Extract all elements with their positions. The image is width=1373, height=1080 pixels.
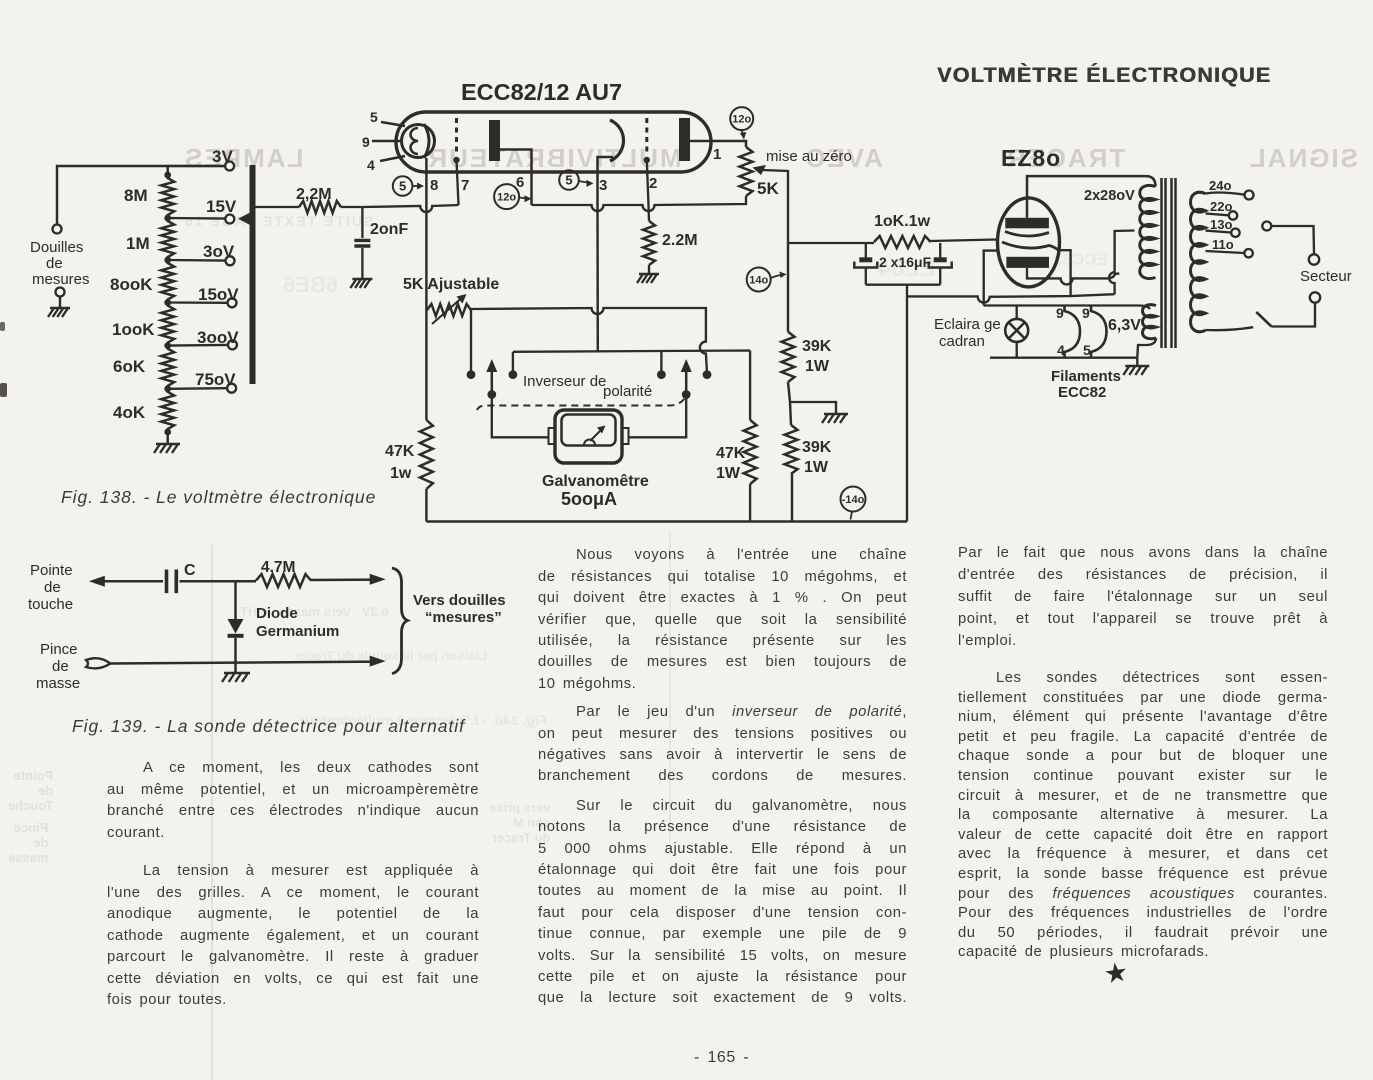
label 2x16uF [879, 254, 932, 270]
wire tap 30V [168, 259, 225, 262]
arrow 5K ajustable [432, 294, 467, 324]
svg-text:Vers douilles: Vers douilles [413, 592, 506, 609]
label 150V [198, 285, 239, 304]
wire wiper to 10K [788, 242, 874, 244]
svg-text:touche: touche [28, 596, 73, 613]
wire selector to R 2,2M [255, 206, 299, 208]
svg-text:2.2M: 2.2M [662, 232, 698, 249]
svg-text:8: 8 [430, 177, 438, 194]
resistor 4.7M sonde [256, 574, 311, 587]
wire chain bottom stem [166, 432, 168, 444]
terminal 3V [225, 162, 234, 171]
svg-text:EZ8o: EZ8o [1001, 145, 1061, 171]
wire wiper net vertical [788, 243, 792, 522]
cathode triode 1 [424, 124, 429, 158]
svg-text:14o: 14o [749, 274, 768, 286]
label 39K 1W upper [802, 338, 832, 375]
wire 47K to bus [749, 484, 751, 522]
svg-text:Germanium: Germanium [256, 623, 339, 640]
wire cathode right drop [1058, 250, 1071, 296]
svg-text:2onF: 2onF [370, 221, 408, 238]
wire to mid ground [790, 402, 836, 414]
grid triode 2 (pin 2) [644, 118, 650, 163]
wire douille masse stem [59, 297, 61, 309]
left edge speck 1 [0, 383, 7, 397]
wire pin2 to 2.2M [647, 205, 650, 221]
svg-text:3: 3 [599, 177, 607, 194]
terminal douille de mesure (bas) [56, 288, 65, 297]
svg-text:2,2M: 2,2M [296, 186, 332, 203]
label 40K [113, 403, 146, 422]
terminal 30V [226, 256, 235, 265]
wiper arrow mise au zero [753, 165, 789, 243]
resistor 1oK.1w [874, 236, 931, 248]
svg-text:4.7M: 4.7M [261, 559, 295, 576]
label 800K [110, 275, 153, 294]
svg-text:“mesures”: “mesures” [425, 609, 502, 626]
anode 1 EZ80 [1005, 218, 1049, 229]
label 1M [126, 234, 150, 253]
wire sonde top line [96, 580, 378, 582]
wire tap 130 [1206, 231, 1231, 233]
svg-text:13o: 13o [1210, 217, 1232, 232]
svg-text:15V: 15V [206, 197, 237, 216]
svg-text:1ooK: 1ooK [112, 320, 155, 339]
svg-text:5: 5 [565, 173, 572, 188]
wire anode2 to 5K top [690, 141, 746, 147]
label 60K [113, 357, 146, 376]
node contact 4 [703, 370, 712, 379]
resistor 47K 1W (cathode 2) [744, 420, 757, 484]
svg-text:Eclaira ge: Eclaira ge [934, 316, 1001, 333]
pin 9 lead [372, 140, 402, 143]
svg-text:15oV: 15oV [198, 285, 239, 304]
ground 20nF [350, 279, 372, 288]
label Galvanometre 500uA [542, 473, 649, 509]
terminal 750V [227, 384, 236, 393]
wire grid2 down [647, 160, 649, 205]
label 2,2M [296, 186, 332, 203]
svg-text:4oK: 4oK [113, 403, 146, 422]
svg-text:Douilles: Douilles [30, 239, 83, 256]
ground douilles [48, 308, 70, 317]
caption fig 139 [72, 716, 465, 737]
left column text [143, 760, 479, 776]
svg-text:5K Ajustable: 5K Ajustable [403, 276, 499, 293]
node contact 2 [509, 370, 518, 379]
resistor 1M [161, 218, 174, 260]
label mise au zero [766, 148, 852, 165]
terminal 300V [228, 340, 237, 349]
node diode top [234, 581, 237, 619]
label 2.2M [662, 232, 698, 249]
wire anode1 to HV top [1027, 176, 1156, 218]
label C [184, 562, 196, 579]
wire tap 150V [168, 301, 227, 304]
svg-text:de: de [46, 255, 63, 272]
svg-text:-14o: -14o [842, 494, 865, 506]
node chain top junction [164, 172, 171, 179]
svg-text:1oK.1w: 1oK.1w [874, 213, 931, 230]
brace vers douilles [392, 568, 408, 674]
wire switch common [1272, 303, 1316, 326]
wire return rail [907, 294, 1115, 302]
anode 2 EZ80 [1006, 257, 1049, 268]
svg-text:12o: 12o [497, 192, 516, 204]
resistor 47K 1w (cathode 1) [420, 420, 433, 489]
svg-text:9: 9 [362, 134, 370, 150]
svg-text:5K: 5K [757, 179, 779, 198]
svg-text:8ooK: 8ooK [110, 275, 153, 294]
svg-text:3V: 3V [212, 147, 233, 166]
bleedthrough headline [183, 143, 1358, 174]
terminal 130 [1231, 229, 1239, 237]
label Inverseur de polarite [523, 373, 652, 400]
terminal 240 [1245, 191, 1254, 200]
svg-text:5: 5 [399, 179, 406, 194]
svg-text:9: 9 [1056, 305, 1064, 321]
galvanometre meter [549, 410, 629, 463]
wire 2,2M to node 20nF [341, 206, 362, 208]
wire 2.2M to ground [648, 265, 650, 274]
svg-text:11o: 11o [1212, 237, 1234, 252]
ground chain [154, 444, 180, 453]
transformer mains winding [1191, 192, 1206, 332]
terminal 150V [228, 298, 237, 307]
ground 2.2M [637, 274, 659, 283]
resistor 100K [161, 303, 174, 346]
svg-text:4: 4 [1057, 342, 1065, 358]
heater circle ECC82 [402, 125, 435, 158]
wire diode to bottom line [234, 638, 237, 673]
label 2x280V [1084, 188, 1135, 204]
wire tap 220 [1206, 214, 1229, 216]
svg-text:1W: 1W [804, 459, 829, 476]
label 5K [757, 179, 779, 198]
cathode triode 2 [610, 120, 624, 161]
wire cathode tie left [984, 251, 999, 306]
arrow 120 to corner [740, 130, 747, 139]
svg-text:1W: 1W [716, 465, 741, 482]
svg-text:1M: 1M [126, 234, 150, 253]
label pin 9 [362, 134, 370, 150]
wire douilles input to divider top [57, 166, 229, 224]
inverseur coupling dashed [477, 397, 686, 411]
wire 6,3V bottom to ground [1137, 338, 1156, 366]
label pin 7 [461, 177, 469, 194]
resistor 800K [161, 260, 174, 303]
svg-text:5ooμA: 5ooμA [561, 489, 617, 509]
label 110 [1212, 237, 1234, 252]
node label (120) pin6 [494, 184, 531, 209]
resistor 5K (mise au zero) [740, 147, 753, 196]
terminal douille de mesure (haut) [53, 225, 62, 234]
label pin 5 [370, 109, 378, 125]
left edge speck 2 [0, 322, 5, 331]
svg-text:24o: 24o [1209, 178, 1231, 193]
fold line left [211, 545, 213, 1080]
tube EZ80 envelope [998, 198, 1060, 287]
svg-text:Inverseur de: Inverseur de [523, 373, 606, 390]
svg-text:2 x16μF: 2 x16μF [879, 254, 932, 270]
wire tap 240 [1206, 193, 1245, 195]
wire anode2 to HV bottom [1027, 268, 1119, 285]
capacitor C sonde [167, 570, 177, 594]
node label (-140) [841, 487, 866, 520]
svg-text:6oK: 6oK [113, 357, 146, 376]
ground mid [822, 414, 848, 423]
label 3V [212, 147, 233, 166]
label 47K 1w [385, 443, 415, 482]
node label (120) anode2 [730, 107, 753, 130]
node label (140) [747, 268, 787, 292]
grid triode 1 (pin 7) [453, 118, 459, 163]
svg-text:mesures: mesures [32, 271, 90, 288]
label Douilles de mesures [30, 239, 90, 288]
label 130 [1210, 217, 1232, 232]
label 39K 1W lower [802, 439, 832, 476]
svg-text:6,3V: 6,3V [1108, 317, 1141, 334]
label 1oK.1w [874, 213, 931, 230]
svg-text:39K: 39K [802, 338, 832, 355]
svg-text:5: 5 [1083, 342, 1091, 358]
svg-text:8M: 8M [124, 186, 148, 205]
label pin 2 [649, 175, 657, 192]
label Diode Germanium [256, 605, 339, 640]
resistor 39K 1W (upper) [782, 332, 795, 382]
anode triode 2 (pin 1) [679, 118, 690, 161]
terminal 220 [1229, 211, 1237, 219]
wire tap 3V [168, 165, 225, 167]
svg-text:Secteur: Secteur [1300, 268, 1352, 285]
label Pointe de touche [28, 562, 73, 613]
svg-text:2: 2 [649, 175, 657, 192]
label 5K Ajustable [403, 276, 499, 293]
transformer 6,3V winding [1143, 305, 1157, 339]
filament ECC82 arc 2 [1091, 306, 1107, 358]
svg-text:1W: 1W [805, 358, 830, 375]
node label (5) pin8 [393, 176, 424, 196]
lamp eclairage cadran [1005, 306, 1028, 358]
label pin 4 [367, 157, 375, 173]
label 2onF [370, 221, 408, 238]
label EZ80 [1001, 145, 1061, 171]
caption fig 138 [61, 487, 376, 508]
resistor 5K Ajustable [427, 304, 471, 316]
svg-text:3oV: 3oV [203, 242, 235, 261]
pince de masse clip [86, 658, 110, 668]
ground filament [1123, 366, 1149, 375]
svg-text:polarité: polarité [603, 383, 652, 400]
svg-text:75oV: 75oV [195, 370, 236, 389]
selector bar (rotacteur) [250, 165, 256, 384]
svg-text:7: 7 [461, 177, 469, 194]
svg-text:Filaments: Filaments [1051, 368, 1121, 385]
tube ECC82/12AU7 envelope [396, 112, 711, 172]
label Eclairage cadran [934, 316, 1001, 350]
wire anode1 to pin 6 drop [500, 150, 532, 206]
bus bottom [426, 520, 907, 522]
terminal selector contact [1262, 222, 1271, 231]
capacitor 2x16uF left [854, 243, 877, 285]
svg-text:Pince: Pince [40, 641, 78, 658]
wire tap 110 [1206, 251, 1244, 253]
svg-text:de: de [44, 579, 61, 596]
wire grid1 to bus [457, 160, 459, 205]
label 6,3V [1108, 317, 1141, 334]
pin 4 lead [380, 156, 405, 161]
wire chain top stub [166, 166, 168, 175]
arrow pointe de touche [89, 576, 105, 587]
wire HV center tap [1109, 231, 1134, 295]
title VOLTMETRE ELECTRONIQUE [937, 63, 1271, 88]
label Filaments ECC82 [1051, 368, 1121, 401]
label pin 6 [516, 174, 524, 191]
svg-text:cadran: cadran [939, 333, 985, 350]
transformer core [1162, 178, 1176, 348]
svg-text:ECC82/12 AU7: ECC82/12 AU7 [461, 79, 622, 105]
filament ECC82 arc 1 [1065, 306, 1081, 358]
svg-text:mise au zéro: mise au zéro [766, 148, 852, 165]
anode triode 1 (pin 6) [489, 120, 500, 161]
svg-text:47K: 47K [385, 443, 415, 460]
wire galvo left [492, 395, 549, 438]
wire inverseur fixed rail [513, 351, 750, 421]
node tap 300V [164, 342, 171, 349]
label Pince de masse [36, 641, 80, 692]
diode germanium [228, 619, 244, 636]
node chain bottom [164, 429, 171, 436]
label 4.7M [261, 559, 295, 576]
svg-text:22o: 22o [1210, 199, 1232, 214]
wire tap 15V [168, 217, 225, 220]
resistor 40K [161, 389, 174, 432]
fold line mid [669, 532, 671, 842]
capacitor 2x16uF right [929, 243, 952, 285]
terminal secteur top [1309, 254, 1319, 264]
wire caps bottom [866, 285, 940, 522]
svg-text:3ooV: 3ooV [197, 328, 239, 347]
terminal secteur bottom [1310, 292, 1320, 302]
wire filament bottom rail [990, 357, 1137, 359]
svg-text:5: 5 [370, 109, 378, 125]
wire galvo right [629, 395, 687, 438]
svg-text:12o: 12o [732, 114, 751, 126]
decorative star [1102, 956, 1130, 990]
wire filament top rail [984, 306, 1150, 310]
node contact 3 [657, 370, 666, 379]
svg-text:masse: masse [36, 675, 80, 692]
svg-text:9: 9 [1082, 305, 1090, 321]
resistor 8M [161, 175, 174, 218]
label ECC82/12AU7 title [461, 79, 622, 105]
wire cathode1 to pin 8 [425, 158, 428, 205]
svg-text:ECC82: ECC82 [1058, 384, 1106, 401]
wire node to pin7 with hop over pin8 [362, 205, 458, 212]
label pins 9 9 4 5 [1056, 305, 1091, 358]
capacitor 2onF [354, 240, 370, 246]
label pin 8 [430, 177, 438, 194]
label Vers douilles mesures [413, 592, 506, 626]
label pin 1 [713, 146, 721, 163]
resistor 2.2M (grille 2) [643, 221, 655, 265]
label 30V [203, 242, 235, 261]
node tap 15V [164, 215, 171, 222]
svg-text:Diode: Diode [256, 605, 298, 622]
resistor 2,2M (grille 1) [299, 201, 341, 213]
label 300V [197, 328, 239, 347]
svg-text:Pointe: Pointe [30, 562, 73, 579]
inverseur wiper left [486, 359, 497, 399]
inverseur wiper right [681, 359, 692, 399]
label 8M [124, 186, 148, 205]
transformer HV winding 2x280V [1140, 185, 1156, 278]
arrow vers douilles bottom [370, 656, 386, 667]
svg-text:de: de [52, 658, 69, 675]
label 47K 1W [716, 445, 746, 482]
terminal 15V [225, 215, 234, 224]
cathode EZ80 arcs [1002, 232, 1059, 251]
wire 20nF to ground [361, 248, 363, 279]
bus anode1 net [532, 196, 747, 211]
ground sonde [222, 673, 250, 682]
svg-text:4: 4 [367, 157, 375, 173]
right column text [958, 545, 1328, 561]
capacitor 2onF stem [361, 207, 363, 238]
wire pin8 vertical [425, 205, 427, 522]
wire tap 750V [168, 387, 227, 390]
svg-text:1: 1 [713, 146, 721, 163]
switch blade secteur [1256, 312, 1271, 327]
wire sonde bottom line [110, 662, 378, 664]
label 240 [1209, 178, 1231, 193]
middle column text [576, 547, 907, 563]
svg-text:Galvanomêtre: Galvanomêtre [542, 473, 649, 490]
wire secteur top to selector [1272, 226, 1315, 254]
resistor 60K [161, 346, 174, 389]
wire winding bottom to switch [1206, 327, 1254, 330]
page number [694, 1049, 749, 1067]
node tap 150V [164, 299, 171, 306]
label 220 [1210, 199, 1232, 214]
wire tap 300V [168, 344, 228, 347]
resistor 39K 1W (lower) [785, 425, 798, 474]
node tap 30V [164, 257, 171, 264]
node label (5) pin3 [559, 170, 593, 190]
wire pin3 vertical [596, 205, 599, 352]
wire pot right to rail and contact [471, 308, 707, 374]
node tap 750V [164, 385, 171, 392]
arrow vers douilles top [370, 574, 386, 585]
label 750V [195, 370, 236, 389]
pin 5 lead [381, 122, 405, 126]
svg-text:2x28oV: 2x28oV [1084, 188, 1135, 204]
node contact 1 [467, 370, 476, 379]
label Secteur [1300, 268, 1352, 285]
wire cathode2 to pin 3 [598, 157, 614, 205]
label 15V [206, 197, 237, 216]
label pin 3 [599, 177, 607, 194]
label 100K [112, 320, 155, 339]
svg-text:C: C [184, 562, 196, 579]
svg-text:47K: 47K [716, 445, 746, 462]
wire 10K to EZ80 cathode [931, 240, 997, 242]
svg-text:39K: 39K [802, 439, 832, 456]
selector arrow at 15V [238, 212, 252, 227]
terminal 110 [1244, 249, 1252, 257]
svg-text:1w: 1w [390, 465, 412, 482]
